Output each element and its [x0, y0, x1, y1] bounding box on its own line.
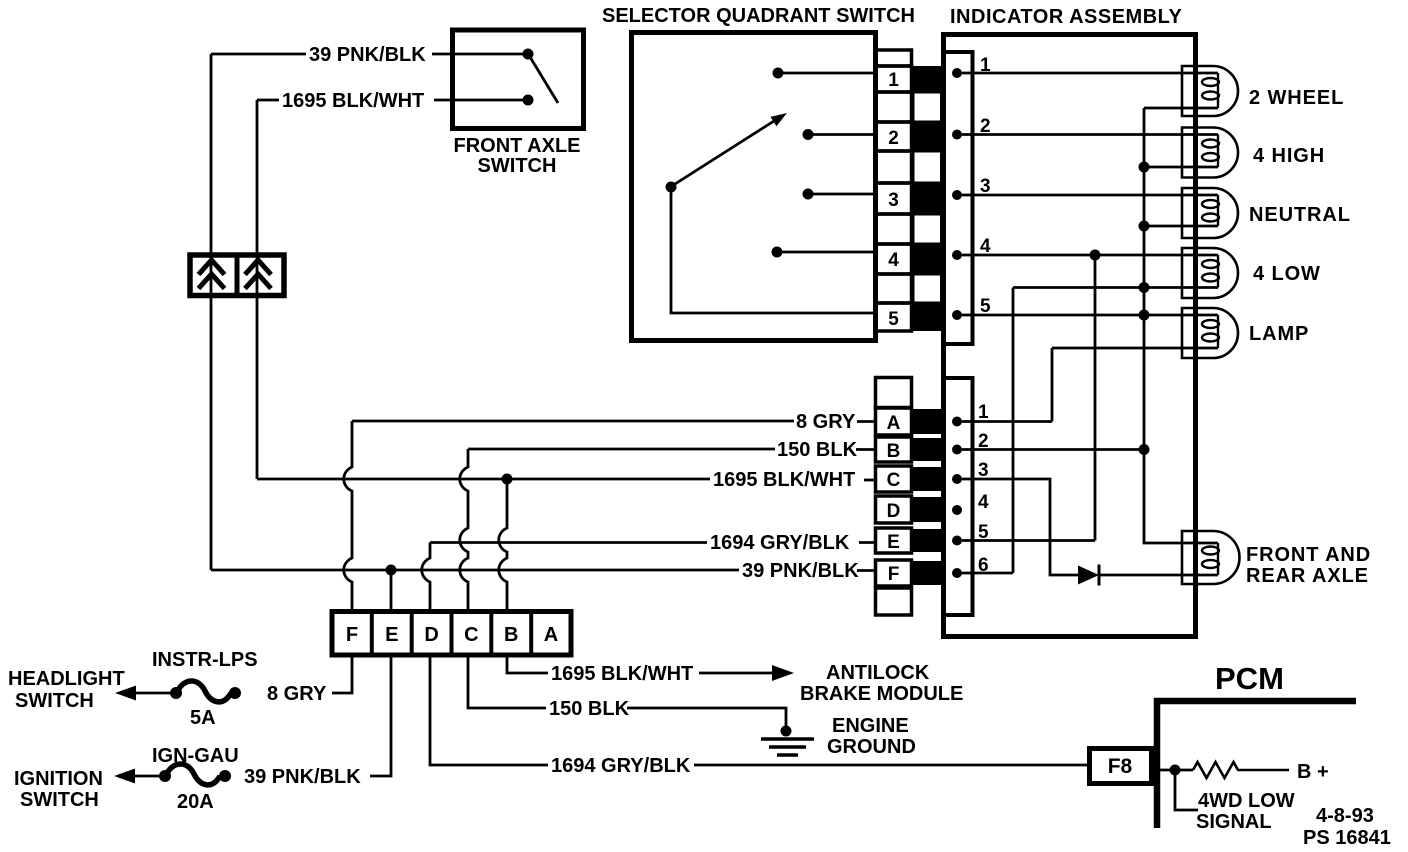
- svg-text:1695 BLK/WHT: 1695 BLK/WHT: [282, 90, 424, 112]
- svg-text:B +: B +: [1297, 761, 1329, 783]
- wire contact 3 to pin 3: [813, 193, 876, 196]
- wire lower pin 5: [962, 539, 1095, 542]
- lamp 2 WHEEL: [1182, 66, 1238, 116]
- svg-text:4: 4: [888, 250, 899, 271]
- fuse F8 box: [1090, 749, 1152, 784]
- svg-text:INDICATOR ASSEMBLY: INDICATOR ASSEMBLY: [950, 6, 1183, 28]
- svg-text:39 PNK/BLK: 39 PNK/BLK: [244, 766, 361, 788]
- wire 1695 vertical to B (with crossover hops): [499, 479, 507, 613]
- wire F8 to resistor: [1160, 769, 1193, 772]
- wire lamp 4 HIGH bottom: [1144, 166, 1218, 169]
- lamp LAMP: [1182, 308, 1238, 358]
- wire pin D down to 1694 GRY/BLK: [430, 655, 548, 765]
- svg-text:3: 3: [888, 190, 899, 211]
- junction dot LAMP top / bus: [1139, 310, 1150, 321]
- indicator lower pin 2 dot: [952, 445, 962, 455]
- fuse INSTR-LPS 5A: [229, 687, 241, 699]
- wire pin E down to 39 PNK/BLK fuse: [370, 655, 391, 776]
- svg-text:SWITCH: SWITCH: [478, 155, 557, 177]
- selector contact 1: [773, 68, 784, 79]
- wire stub 1695 to pin C: [864, 479, 876, 482]
- selector contact 3: [803, 189, 814, 200]
- wire upper pin 1 to lamp 2 WHEEL: [962, 72, 1218, 75]
- svg-text:1694 GRY/BLK: 1694 GRY/BLK: [710, 532, 850, 554]
- svg-text:5A: 5A: [190, 707, 216, 729]
- selector contact 2: [803, 129, 814, 140]
- bus vertical pin4 to lower pin 5: [1094, 255, 1097, 541]
- svg-text:IGNITION: IGNITION: [14, 768, 103, 790]
- wire 8 GRY vertical to F (with crossover hops): [344, 421, 352, 613]
- wire to headlight switch with arrow: [134, 692, 172, 695]
- svg-text:GROUND: GROUND: [827, 736, 916, 758]
- wire 1695 BLK/WHT to front axle switch contact: [434, 99, 523, 102]
- wire pin B down to 1695 BLK/WHT: [507, 655, 548, 673]
- wire 150 BLK to engine ground: [627, 708, 786, 726]
- lamp FRONT AND REAR AXLE: [1182, 531, 1240, 584]
- wire 1694 GRY/BLK horizontal (net E): [430, 541, 707, 544]
- connector C1 mating cells (black): [912, 409, 944, 434]
- svg-text:8 GRY: 8 GRY: [796, 411, 856, 433]
- svg-text:C: C: [887, 470, 901, 491]
- svg-text:4 HIGH: 4 HIGH: [1253, 145, 1325, 167]
- svg-text:NEUTRAL: NEUTRAL: [1249, 204, 1351, 226]
- svg-text:F: F: [888, 564, 900, 585]
- front axle switch box: [453, 30, 584, 129]
- connector C2 FEDCBA outer box: [332, 612, 571, 656]
- svg-text:4 LOW: 4 LOW: [1253, 263, 1321, 285]
- wire 150 BLK vertical to C (with crossover hops): [460, 449, 468, 613]
- svg-text:150 BLK: 150 BLK: [549, 698, 630, 720]
- bus vertical LAMP bottom to lower pin 1: [1051, 348, 1054, 422]
- svg-text:150 BLK: 150 BLK: [777, 439, 858, 461]
- front axle switch contact 1: [523, 49, 534, 60]
- svg-text:1694 GRY/BLK: 1694 GRY/BLK: [551, 755, 691, 777]
- PCM boundary bracket: [1157, 701, 1356, 828]
- bus vertical 4 LOW bottom to lower pin 6: [1012, 288, 1015, 574]
- wire wiper to pin 5: [671, 192, 876, 313]
- wire 1695 BLK/WHT vertical: [257, 100, 279, 479]
- wire pin C down to 150 BLK: [468, 655, 546, 708]
- junction dot NEUTRAL bottom: [1139, 221, 1150, 232]
- wire 39 PNK/BLK to front axle switch contact: [432, 53, 523, 56]
- wire lower pin 3 to diode: [962, 479, 1078, 575]
- indicator lower pin 1 dot: [952, 417, 962, 427]
- wire lamp 2 WHEEL bottom: [1144, 107, 1218, 110]
- wire stub 39 to pin F: [857, 569, 876, 572]
- lamp 4 HIGH: [1182, 128, 1238, 178]
- indicator upper pin 1 dot: [952, 68, 962, 78]
- wire contact 4 to pin 4: [782, 251, 876, 254]
- indicator assembly box: [944, 35, 1196, 637]
- bus vertical lamp bottoms to FRONT/REAR lamp top: [1144, 108, 1218, 543]
- svg-text:4: 4: [978, 492, 989, 513]
- svg-text:D: D: [887, 501, 901, 522]
- front axle switch blade: [530, 57, 558, 103]
- inline connector (double chevrons): [190, 255, 284, 296]
- svg-text:4WD LOW: 4WD LOW: [1198, 790, 1295, 812]
- svg-text:FRONT AXLE: FRONT AXLE: [453, 135, 580, 157]
- wire lower pin 2 to bus: [962, 448, 1144, 451]
- wire upper pin 3 to lamp NEUTRAL: [962, 194, 1218, 197]
- svg-text:8 GRY: 8 GRY: [267, 683, 327, 705]
- wire lower pin 1: [962, 420, 1052, 423]
- svg-text:INSTR-LPS: INSTR-LPS: [152, 649, 258, 671]
- indicator upper pin 2 dot: [952, 130, 962, 140]
- svg-text:F8: F8: [1108, 755, 1133, 778]
- connector C1 letter column boxes: [876, 378, 912, 408]
- indicator lower pin 4 dot: [952, 505, 962, 515]
- wire upper pin 4 to lamp 4 LOW: [962, 254, 1218, 257]
- svg-text:LAMP: LAMP: [1249, 323, 1309, 345]
- wire lower pin 6: [962, 572, 1013, 575]
- svg-text:SELECTOR QUADRANT SWITCH: SELECTOR QUADRANT SWITCH: [602, 5, 915, 27]
- wire lamp LAMP bottom: [1052, 347, 1218, 350]
- svg-text:SIGNAL: SIGNAL: [1196, 811, 1272, 833]
- svg-text:B: B: [887, 441, 901, 462]
- svg-text:ENGINE: ENGINE: [832, 715, 909, 737]
- svg-text:BRAKE MODULE: BRAKE MODULE: [800, 683, 963, 705]
- junction dot 4WD low signal: [1170, 765, 1181, 776]
- indicator upper pin 4 dot: [952, 250, 962, 260]
- svg-text:E: E: [887, 532, 900, 553]
- svg-text:A: A: [544, 624, 558, 646]
- wire to ignition switch with arrow: [133, 775, 161, 778]
- junction dot 4 HIGH bottom: [1139, 162, 1150, 173]
- svg-text:HEADLIGHT: HEADLIGHT: [8, 668, 125, 690]
- selector wiper contact: [666, 182, 677, 193]
- svg-text:ANTILOCK: ANTILOCK: [826, 662, 930, 684]
- svg-text:PS 16841: PS 16841: [1303, 827, 1391, 849]
- connector mating cells (white): [913, 92, 942, 122]
- svg-text:1: 1: [888, 70, 899, 91]
- selector quadrant switch box: [632, 33, 876, 341]
- indicator upper connector column: [943, 52, 973, 344]
- indicator lower pin 5 dot: [952, 536, 962, 546]
- wire stub 150 BLK to pin B: [856, 448, 876, 451]
- connector mating cells (black): [912, 66, 942, 92]
- wire 150 BLK horizontal (net B): [468, 448, 775, 451]
- svg-text:4-8-93: 4-8-93: [1316, 805, 1374, 827]
- svg-text:2: 2: [888, 128, 899, 149]
- svg-text:39 PNK/BLK: 39 PNK/BLK: [742, 560, 859, 582]
- wire 4WD low signal: [1175, 775, 1198, 810]
- svg-text:B: B: [504, 624, 518, 646]
- wire pin F down to 8 GRY fuse: [332, 655, 352, 693]
- front axle switch contact 2: [523, 95, 534, 106]
- wire stub 1694 to pin E: [859, 541, 876, 544]
- svg-text:1: 1: [978, 402, 989, 423]
- fuse IGN-GAU 20A: [219, 770, 231, 782]
- indicator lower pin 6 dot: [952, 568, 962, 578]
- wire diode to FRONT/REAR lamp bottom: [1099, 574, 1218, 577]
- wire lamp 4 LOW bottom: [1013, 286, 1218, 289]
- svg-text:1695 BLK/WHT: 1695 BLK/WHT: [713, 469, 855, 491]
- wire 39 PNK/BLK left vertical: [211, 54, 306, 570]
- svg-text:5: 5: [888, 309, 899, 330]
- lamp 4 LOW: [1182, 248, 1238, 298]
- svg-text:39 PNK/BLK: 39 PNK/BLK: [309, 44, 426, 66]
- svg-text:C: C: [464, 624, 478, 646]
- wire 8 GRY horizontal (net A): [352, 420, 794, 423]
- lamp NEUTRAL: [1182, 188, 1238, 238]
- svg-text:PCM: PCM: [1215, 661, 1284, 696]
- selector contact 4: [772, 247, 783, 258]
- wire contact 1 to pin 1: [783, 72, 876, 75]
- svg-text:2 WHEEL: 2 WHEEL: [1249, 87, 1344, 109]
- svg-text:E: E: [385, 624, 398, 646]
- svg-text:SWITCH: SWITCH: [20, 789, 99, 811]
- wire 39 vertical to E: [390, 570, 393, 613]
- selector pin column boxes: [876, 50, 912, 66]
- connector C2 cell separators: [372, 612, 531, 656]
- wire contact 2 to pin 2: [813, 133, 876, 136]
- wire 1694 vertical to D (with crossover hop): [422, 543, 430, 614]
- indicator upper pin 3 dot: [952, 190, 962, 200]
- svg-text:1695 BLK/WHT: 1695 BLK/WHT: [551, 663, 693, 685]
- resistor to B+: [1193, 762, 1289, 778]
- wire lamp NEUTRAL bottom: [1144, 225, 1218, 228]
- junction dot 4 LOW bottom: [1139, 282, 1150, 293]
- engine ground symbol: [781, 726, 792, 737]
- wire 1695 BLK/WHT horizontal (net C): [257, 478, 710, 481]
- selector wiper arrow: [675, 121, 774, 184]
- svg-text:IGN-GAU: IGN-GAU: [152, 745, 239, 767]
- wire 39 PNK/BLK horizontal (net F): [211, 569, 739, 572]
- svg-text:FRONT AND: FRONT AND: [1246, 544, 1371, 566]
- svg-text:D: D: [424, 624, 438, 646]
- diode: [1078, 566, 1099, 585]
- svg-text:A: A: [887, 413, 901, 434]
- indicator lower pin 3 dot: [952, 474, 962, 484]
- wire stub 8 GRY to pin A: [857, 420, 876, 423]
- wire upper pin 5 to lamp LAMP: [962, 314, 1218, 317]
- svg-text:SWITCH: SWITCH: [15, 690, 94, 712]
- arrow to antilock brake module: [699, 672, 774, 675]
- svg-text:REAR AXLE: REAR AXLE: [1246, 565, 1369, 587]
- junction dot 39/E: [386, 565, 397, 576]
- indicator upper pin 5 dot: [952, 310, 962, 320]
- junction dot 1695/B: [502, 474, 513, 485]
- svg-text:20A: 20A: [177, 791, 214, 813]
- indicator lower connector column: [943, 378, 973, 615]
- junction dot lower pin 2 / bus: [1139, 444, 1150, 455]
- wire 1694 GRY/BLK to fuse F8: [694, 764, 1087, 767]
- svg-text:F: F: [346, 624, 358, 646]
- junction dot pin4/4LOW bus: [1090, 250, 1101, 261]
- wire upper pin 2 to lamp 4 HIGH: [962, 133, 1218, 136]
